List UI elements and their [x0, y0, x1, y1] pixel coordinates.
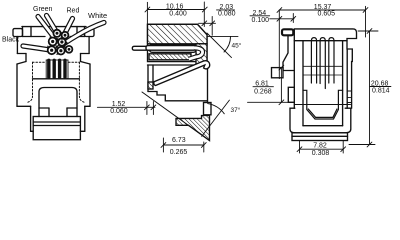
svg-text:0.605: 0.605	[318, 11, 336, 18]
svg-text:Green: Green	[33, 6, 53, 13]
svg-text:37°: 37°	[231, 106, 241, 114]
svg-text:Black: Black	[2, 36, 20, 43]
svg-text:6.73: 6.73	[172, 137, 186, 144]
svg-text:0.080: 0.080	[218, 10, 236, 17]
svg-text:0.100: 0.100	[252, 17, 270, 24]
svg-text:6.81: 6.81	[255, 80, 269, 87]
svg-text:0.814: 0.814	[372, 88, 390, 95]
svg-text:0.060: 0.060	[110, 108, 128, 115]
svg-text:7.82: 7.82	[313, 143, 327, 150]
svg-text:White: White	[88, 11, 107, 20]
svg-text:0.268: 0.268	[254, 88, 272, 95]
svg-text:Red: Red	[67, 8, 80, 15]
svg-text:45°: 45°	[232, 42, 242, 50]
svg-text:0.265: 0.265	[170, 149, 188, 156]
svg-text:20.68: 20.68	[371, 81, 389, 88]
svg-text:0.400: 0.400	[169, 10, 187, 17]
svg-text:0.308: 0.308	[312, 150, 330, 157]
